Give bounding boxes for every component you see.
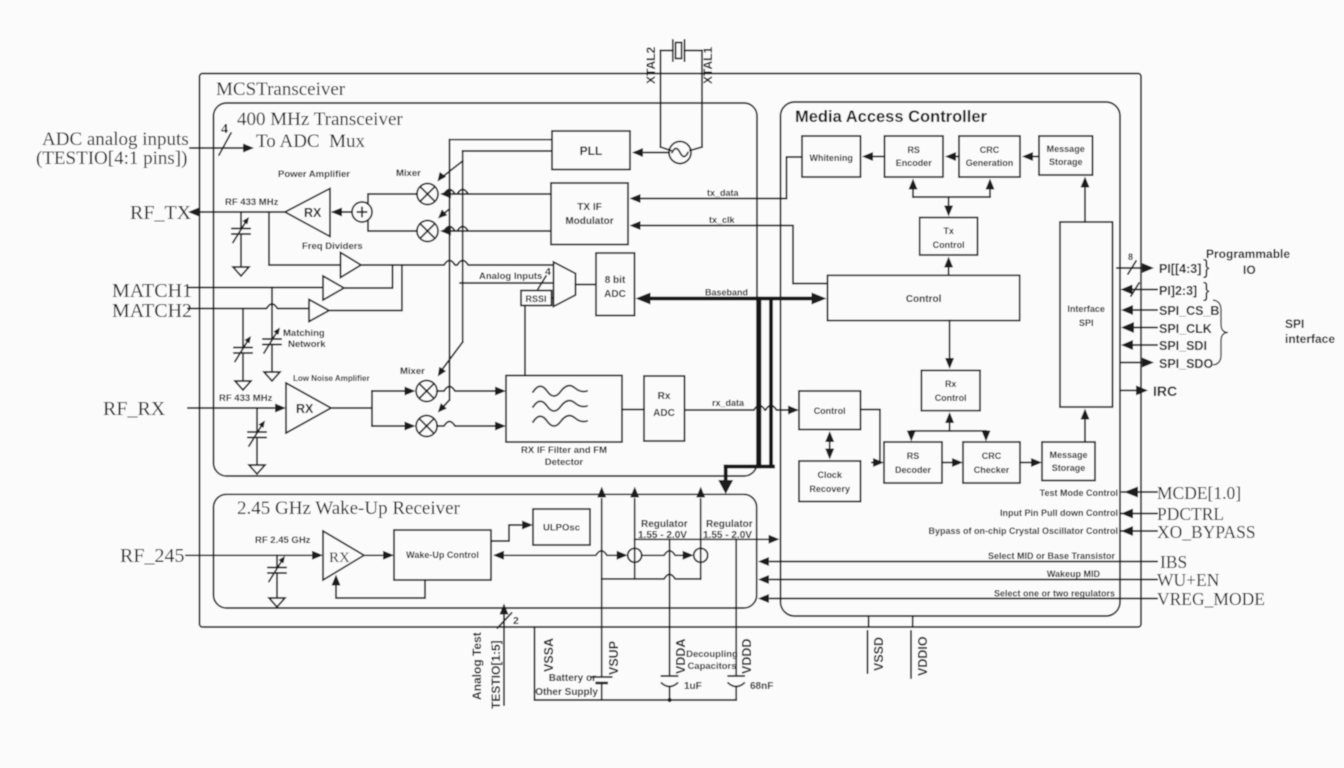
bus slash 4 on ADC input bbox=[219, 122, 231, 155]
svg-text:Regulator: Regulator bbox=[706, 519, 753, 530]
wire XO to PLL bbox=[632, 148, 669, 157]
wire LO to TX mixer upper bbox=[438, 161, 463, 182]
svg-text:4: 4 bbox=[221, 122, 228, 137]
capacitor tuning WU bbox=[268, 555, 286, 607]
svg-text:RF_245: RF_245 bbox=[120, 545, 184, 567]
svg-text:Network: Network bbox=[288, 339, 326, 350]
block PLL bbox=[552, 131, 630, 170]
wire CRC Checker to Message Storage bbox=[1020, 458, 1042, 467]
label SPI_CS_B bbox=[1159, 304, 1219, 318]
svg-text:SPI_CLK: SPI_CLK bbox=[1159, 322, 1212, 336]
svg-text:tx_clk: tx_clk bbox=[709, 215, 736, 225]
wire TX Control branch bbox=[909, 179, 995, 217]
block RS Decoder bbox=[884, 442, 942, 483]
svg-text:Wakeup MID: Wakeup MID bbox=[1047, 569, 1101, 579]
mux ADC bbox=[554, 262, 576, 307]
svg-text:8: 8 bbox=[1128, 252, 1133, 262]
svg-text:RF 433 MHz: RF 433 MHz bbox=[219, 393, 273, 404]
wire ADC analog inputs bbox=[190, 144, 254, 153]
wire RSSI to mux bbox=[552, 297, 554, 299]
label Regulator 1 bbox=[638, 519, 688, 541]
svg-text:ULPOsc: ULPOsc bbox=[543, 523, 580, 534]
label Mixer RX bbox=[400, 366, 425, 377]
wire Control to Rx Control bbox=[945, 321, 954, 369]
wire PLL out 1 bbox=[450, 139, 553, 141]
svg-text:Control: Control bbox=[933, 240, 965, 250]
svg-text:PDCTRL: PDCTRL bbox=[1157, 504, 1224, 524]
wire regulator output line bbox=[635, 535, 780, 544]
svg-text:RX IF Filter and FM: RX IF Filter and FM bbox=[521, 445, 607, 456]
bus control vertical 1 bbox=[758, 299, 762, 467]
svg-text:Analog Test: Analog Test bbox=[470, 632, 484, 700]
wire LO to RX mixer upper bbox=[438, 342, 463, 377]
crystal X1 bbox=[661, 40, 703, 61]
svg-text:1uF: 1uF bbox=[684, 681, 702, 692]
op-amp PA bbox=[285, 189, 330, 237]
svg-text:RF_TX: RF_TX bbox=[130, 202, 192, 224]
label Bypass crystal osc control bbox=[928, 526, 1118, 536]
wire TX IF to mixer upper bbox=[440, 190, 551, 199]
wire supply to wake-up control bbox=[493, 551, 628, 560]
block RSSI bbox=[521, 291, 552, 306]
wire SPI_SDO bbox=[1121, 358, 1154, 368]
label SPI_SDO bbox=[1159, 357, 1213, 371]
wire Control to RS Decoder bbox=[861, 410, 885, 468]
wire Rx Control branch bbox=[907, 412, 991, 442]
svg-text:TESTIO[1:5]: TESTIO[1:5] bbox=[489, 640, 503, 709]
label VSUP bbox=[607, 641, 621, 675]
wire RX mixer upper to filter bbox=[437, 387, 506, 396]
label IRC bbox=[1153, 383, 1177, 399]
wire PLL out 2 bbox=[463, 150, 552, 152]
svg-text:XTAL2: XTAL2 bbox=[644, 47, 658, 84]
svg-text:VSSD: VSSD bbox=[872, 637, 886, 671]
label ADC analog inputs bbox=[36, 129, 189, 169]
svg-text:MATCH1: MATCH1 bbox=[112, 280, 192, 302]
label TESTIO 1:5 bbox=[489, 640, 503, 709]
label Low Noise Amplifier bbox=[293, 374, 370, 383]
wire VDDA drop bbox=[669, 539, 671, 700]
label PI 4:3 bbox=[1159, 262, 1201, 276]
svg-text:Decoupling: Decoupling bbox=[686, 649, 738, 660]
svg-text:RF_RX: RF_RX bbox=[103, 398, 166, 420]
wire filter to Rx ADC bbox=[622, 409, 644, 411]
svg-text:Regulator: Regulator bbox=[641, 519, 688, 530]
label SPI_SDI bbox=[1159, 339, 1207, 353]
label RF_245 bbox=[120, 545, 184, 567]
label To ADC Mux bbox=[256, 131, 365, 152]
label VREG_MODE bbox=[1157, 589, 1265, 609]
label SPI interface bbox=[1285, 317, 1335, 346]
wire rx_data bbox=[685, 398, 799, 415]
block CRC Checker bbox=[963, 442, 1020, 483]
wire Control to Clock Recovery bbox=[825, 431, 834, 460]
block RS Encoder bbox=[885, 136, 944, 177]
wire LO to RX mixer lower bbox=[438, 400, 450, 413]
svg-text:Encoder: Encoder bbox=[896, 158, 933, 168]
wire SPI to Message Storage TX bbox=[1081, 177, 1090, 223]
oscillator XO bbox=[669, 142, 691, 164]
label VDDD bbox=[740, 639, 754, 674]
svg-text:PI[[4:3]: PI[[4:3] bbox=[1159, 262, 1201, 276]
block ULPOsc bbox=[533, 509, 590, 545]
wire WU_EN bbox=[758, 575, 1157, 584]
block Interface SPI bbox=[1060, 222, 1113, 407]
svg-text:IO: IO bbox=[1243, 263, 1256, 277]
svg-text:RF 433 MHz: RF 433 MHz bbox=[225, 197, 279, 208]
label RF_TX bbox=[130, 202, 192, 224]
wire RS Encoder to Whitening bbox=[862, 152, 885, 161]
svg-text:VREG_MODE: VREG_MODE bbox=[1157, 589, 1265, 609]
wire VREG_MODE bbox=[758, 594, 1157, 603]
wire PI 4:3 bbox=[1117, 263, 1154, 273]
wire divider out to mux bbox=[361, 261, 554, 266]
svg-text:Test Mode Control: Test Mode Control bbox=[1040, 488, 1118, 498]
capacitor VDDA decoupling bbox=[662, 676, 678, 687]
svg-text:IRC: IRC bbox=[1153, 383, 1177, 399]
svg-text:MATCH2: MATCH2 bbox=[112, 300, 192, 322]
wire MATCH2 bbox=[188, 304, 309, 309]
svg-text:4: 4 bbox=[545, 266, 551, 278]
wire T2 out bbox=[344, 265, 393, 288]
block RX IF Filter bbox=[506, 376, 622, 443]
svg-text:Analog Inputs: Analog Inputs bbox=[479, 271, 542, 282]
label Battery or Other Supply bbox=[535, 673, 598, 698]
svg-text:VDDA: VDDA bbox=[674, 639, 688, 674]
wire PI 2:3 bbox=[1121, 285, 1158, 295]
label Decoupling Capacitors bbox=[686, 649, 738, 672]
svg-text:MCSTransceiver: MCSTransceiver bbox=[216, 79, 346, 100]
capacitor matching 2 bbox=[263, 288, 281, 382]
bus slash PI 2:3 bbox=[1131, 283, 1139, 296]
svg-text:RS: RS bbox=[907, 145, 920, 155]
wire MATCH1 bbox=[188, 287, 323, 289]
svg-text:Rx: Rx bbox=[658, 391, 671, 402]
block CRC Generation bbox=[959, 136, 1020, 177]
svg-text:VSUP: VSUP bbox=[607, 641, 621, 675]
block 8bit ADC bbox=[596, 253, 635, 316]
outer box MCS Transceiver bbox=[200, 74, 1142, 628]
svg-text:Modulator: Modulator bbox=[565, 216, 613, 227]
svg-text:Decoder: Decoder bbox=[895, 465, 932, 475]
label VDDA bbox=[674, 639, 688, 674]
svg-text:Media Access Controller: Media Access Controller bbox=[795, 108, 988, 126]
block Whitening bbox=[802, 136, 861, 177]
svg-text:WU+EN: WU+EN bbox=[1157, 570, 1220, 590]
label Matching Network bbox=[283, 328, 326, 350]
label XTAL2 bbox=[644, 47, 658, 84]
svg-text:RX: RX bbox=[296, 402, 314, 416]
wire T3 out bbox=[329, 265, 402, 311]
svg-text:Freq Dividers: Freq Dividers bbox=[302, 241, 363, 252]
svg-text:SPI_SDO: SPI_SDO bbox=[1159, 357, 1213, 371]
label XTAL1 bbox=[701, 47, 715, 84]
svg-text:interface: interface bbox=[1285, 332, 1335, 346]
regulator 1 bbox=[628, 548, 642, 562]
svg-text:Recovery: Recovery bbox=[809, 484, 850, 494]
bus Baseband bbox=[636, 288, 827, 305]
pin VDDIO bbox=[911, 616, 930, 678]
label Analog Inputs bbox=[479, 271, 542, 282]
bus slash PI 4:3 bbox=[1128, 252, 1136, 274]
svg-text:Baseband: Baseband bbox=[705, 288, 748, 298]
buffer T3 bbox=[309, 300, 329, 322]
label VSSA bbox=[542, 638, 556, 672]
label MCDE bbox=[1157, 483, 1241, 503]
wire VSUP rail bbox=[597, 487, 606, 701]
wire Message Storage to CRC Gen bbox=[1022, 152, 1039, 161]
buffer T2 bbox=[323, 276, 344, 300]
summer node bbox=[352, 202, 372, 222]
svg-text:8 bit: 8 bit bbox=[605, 275, 626, 286]
wire RS Decoder to CRC Checker bbox=[942, 458, 963, 467]
svg-text:Mixer: Mixer bbox=[400, 366, 425, 377]
title MCS Transceiver bbox=[216, 79, 346, 100]
wire RX to wake-up control bbox=[364, 551, 394, 560]
svg-text:Input Pin Pull down Control: Input Pin Pull down Control bbox=[1000, 508, 1118, 518]
label PDCTRL bbox=[1157, 504, 1224, 524]
svg-text:Detector: Detector bbox=[545, 457, 584, 468]
svg-text:RF 2.45 GHz: RF 2.45 GHz bbox=[255, 535, 311, 546]
svg-text:2: 2 bbox=[513, 615, 519, 627]
svg-text:VDDIO: VDDIO bbox=[916, 636, 930, 676]
wire IBS bbox=[758, 557, 1157, 566]
svg-text:RX: RX bbox=[304, 206, 322, 220]
wire tx_data bbox=[630, 157, 803, 203]
wire RF_RX bbox=[188, 404, 286, 413]
label 68nF bbox=[750, 681, 773, 692]
svg-text:PI]2:3]: PI]2:3] bbox=[1159, 284, 1197, 298]
block TX IF Modulator bbox=[551, 183, 628, 245]
svg-text:Storage: Storage bbox=[1052, 463, 1086, 473]
wire LO vertical 1 bbox=[449, 140, 451, 400]
svg-text:PLL: PLL bbox=[580, 144, 603, 158]
pad box bottom bbox=[535, 627, 737, 702]
svg-text:Select MID or Base Transistor: Select MID or Base Transistor bbox=[988, 551, 1116, 561]
title 400 MHz Transceiver bbox=[237, 109, 403, 130]
label Regulator 2 bbox=[703, 519, 753, 541]
svg-text:SPI_SDI: SPI_SDI bbox=[1159, 339, 1207, 353]
svg-text:RX: RX bbox=[329, 550, 350, 566]
svg-text:Low Noise Amplifier: Low Noise Amplifier bbox=[293, 374, 370, 383]
regulator 2 bbox=[694, 548, 708, 562]
brace SPI group bbox=[1213, 300, 1228, 365]
label IBS bbox=[1160, 552, 1187, 572]
wire CRC Gen to RS Encoder bbox=[945, 152, 959, 161]
label WU_EN bbox=[1157, 570, 1220, 590]
svg-text:MCDE[1.0]: MCDE[1.0] bbox=[1157, 483, 1241, 503]
wire PDCTRL bbox=[1120, 509, 1157, 519]
box 2.45GHz Wake-Up Receiver bbox=[214, 494, 757, 608]
svg-text:2.45 GHz Wake-Up Receiver: 2.45 GHz Wake-Up Receiver bbox=[237, 498, 461, 519]
wire LNA to RX mixers bbox=[331, 387, 416, 431]
mixer RX upper bbox=[416, 381, 437, 402]
svg-text:Control: Control bbox=[814, 406, 846, 416]
capacitor VDDD decoupling bbox=[728, 676, 744, 687]
svg-text:XO_BYPASS: XO_BYPASS bbox=[1157, 522, 1256, 542]
mixer RX lower bbox=[416, 416, 437, 437]
svg-text:Interface: Interface bbox=[1067, 304, 1105, 314]
svg-text:Capacitors: Capacitors bbox=[687, 661, 736, 672]
svg-text:IBS: IBS bbox=[1160, 552, 1187, 572]
block Rx Control bbox=[921, 370, 980, 410]
label XO_BYPASS bbox=[1157, 522, 1256, 542]
wire SPI_SDI bbox=[1121, 340, 1157, 350]
svg-text:SPI_CS_B: SPI_CS_B bbox=[1159, 304, 1219, 318]
wire MCDE bbox=[1122, 487, 1157, 498]
label RX IF Filter and FM Detector bbox=[521, 445, 607, 468]
label Select MID or Base Transistor bbox=[988, 551, 1116, 561]
label PI 2:3 bbox=[1159, 284, 1197, 298]
svg-text:ADC analog inputs: ADC analog inputs bbox=[42, 129, 189, 150]
svg-text:VDDD: VDDD bbox=[740, 639, 754, 674]
box 400 MHz Transceiver bbox=[214, 103, 758, 476]
title 2.45 GHz Wake-Up Receiver bbox=[237, 498, 461, 519]
brace PI group bbox=[1203, 257, 1210, 302]
wire XO_BYPASS bbox=[1120, 526, 1157, 536]
svg-text:Control: Control bbox=[935, 393, 967, 403]
svg-text:VSSA: VSSA bbox=[542, 638, 556, 672]
svg-text:Power Amplifier: Power Amplifier bbox=[278, 169, 350, 180]
svg-text:RS: RS bbox=[907, 451, 920, 461]
wire Analog Test TESTIO bbox=[500, 604, 509, 706]
svg-text:XTAL1: XTAL1 bbox=[701, 47, 715, 84]
label RF 2.45 GHz bbox=[255, 535, 311, 546]
label RF 433 MHz RX bbox=[219, 393, 273, 404]
label Power Amplifier bbox=[278, 169, 350, 180]
block Clock Recovery bbox=[799, 461, 861, 502]
wire RF_245 bbox=[186, 551, 323, 560]
label Programmable IO bbox=[1206, 247, 1290, 277]
svg-text:(TESTIO[4:1 pins]): (TESTIO[4:1 pins]) bbox=[36, 148, 187, 169]
svg-text:Tx: Tx bbox=[943, 226, 954, 236]
bus slash 4 analog inputs bbox=[538, 266, 551, 289]
svg-text:Message: Message bbox=[1049, 450, 1087, 460]
svg-text:Programmable: Programmable bbox=[1206, 247, 1290, 261]
svg-text:Storage: Storage bbox=[1049, 157, 1083, 167]
op-amp LNA bbox=[286, 383, 331, 433]
wire TX mixer lower to summer bbox=[368, 221, 417, 231]
block TX Control bbox=[920, 218, 978, 256]
label Analog Test bbox=[470, 632, 484, 700]
svg-text:Select one or two regulators: Select one or two regulators bbox=[994, 589, 1115, 599]
label Input Pin Pull down Control bbox=[1000, 508, 1118, 518]
wire SPI_CLK bbox=[1121, 322, 1157, 333]
svg-text:To ADC Mux: To ADC Mux bbox=[256, 131, 365, 152]
wire IRC bbox=[1120, 385, 1148, 395]
label MATCH1 bbox=[112, 280, 192, 302]
wire TX mixer upper to summer bbox=[368, 194, 417, 203]
wire XTAL1 pin bbox=[690, 51, 702, 151]
op-amp wake-up RX bbox=[323, 531, 364, 580]
label Freq Dividers bbox=[302, 241, 363, 252]
svg-text:Rx: Rx bbox=[945, 379, 957, 389]
svg-text:400 MHz Transceiver: 400 MHz Transceiver bbox=[237, 109, 403, 130]
wire LO vertical 2 bbox=[462, 151, 464, 342]
wire PA tap to divider T1 bbox=[269, 212, 341, 265]
svg-text:}: } bbox=[1203, 280, 1210, 302]
buffer T1 bbox=[341, 253, 362, 278]
svg-text:tx_data: tx_data bbox=[707, 188, 740, 198]
bus slash 2 TESTIO bbox=[498, 613, 520, 628]
wire AGC feedback bbox=[332, 575, 426, 599]
label Wakeup MID bbox=[1047, 569, 1101, 579]
wire regulator1 to regulator2 bbox=[642, 551, 694, 560]
wire regulator1 output up bbox=[630, 487, 639, 579]
svg-text:68nF: 68nF bbox=[750, 681, 773, 692]
svg-text:Other Supply: Other Supply bbox=[535, 687, 598, 698]
svg-text:Checker: Checker bbox=[974, 465, 1010, 475]
label Test Mode Control bbox=[1040, 488, 1118, 498]
label MATCH2 bbox=[112, 300, 192, 322]
svg-text:RSSI: RSSI bbox=[525, 294, 546, 304]
label RF 433 MHz TX bbox=[225, 197, 279, 208]
svg-text:Control: Control bbox=[906, 294, 942, 305]
wire VDDD drop bbox=[735, 539, 737, 700]
svg-text:Matching: Matching bbox=[283, 328, 325, 339]
wire wake-up control to ULPOsc bbox=[491, 521, 533, 542]
wire Control to TX Control bbox=[944, 257, 953, 276]
svg-text:rx_data: rx_data bbox=[712, 398, 745, 408]
block Rx ADC bbox=[644, 376, 685, 441]
svg-text:CRC: CRC bbox=[982, 451, 1002, 461]
svg-text:Clock: Clock bbox=[817, 470, 843, 480]
battery VSUP bbox=[592, 677, 612, 683]
wire RSSI from filter bbox=[524, 306, 526, 376]
pin VSSD bbox=[868, 616, 887, 673]
block Control RX small bbox=[799, 391, 861, 430]
svg-text:CRC: CRC bbox=[980, 145, 1000, 155]
label SPI_CLK bbox=[1159, 322, 1212, 336]
svg-text:TX IF: TX IF bbox=[577, 202, 601, 213]
block Wake-Up Control bbox=[394, 530, 491, 580]
title Media Access Controller bbox=[795, 108, 988, 126]
mixer TX lower bbox=[417, 221, 438, 242]
wire RF_TX bbox=[188, 208, 285, 217]
svg-text:Whitening: Whitening bbox=[809, 153, 853, 163]
svg-text:Wake-Up Control: Wake-Up Control bbox=[406, 550, 479, 560]
box Media Access Controller bbox=[781, 102, 1121, 616]
svg-text:ADC: ADC bbox=[653, 408, 675, 419]
wire RX mixer lower to filter bbox=[437, 422, 506, 431]
wire TX IF to mixer lower bbox=[440, 227, 551, 236]
wire bottom supply rail bbox=[602, 574, 701, 579]
label Select one or two regulators bbox=[994, 589, 1115, 599]
svg-text:SPI: SPI bbox=[1079, 318, 1094, 328]
svg-text:Bypass of on-chip Crystal Osci: Bypass of on-chip Crystal Oscillator Con… bbox=[928, 526, 1118, 536]
block Message Storage RX bbox=[1042, 442, 1095, 481]
label 1uF bbox=[684, 681, 702, 692]
wire LO to TX mixer lower bbox=[438, 209, 450, 219]
capacitor tuning TX bbox=[232, 212, 250, 276]
label Mixer TX bbox=[396, 168, 421, 179]
wire regulator2 output up bbox=[696, 487, 705, 579]
wire XTAL2 pin bbox=[661, 51, 672, 151]
svg-text:ADC: ADC bbox=[604, 289, 626, 300]
wire summer to PA bbox=[331, 208, 352, 217]
wire Message Storage to SPI bbox=[1081, 409, 1090, 443]
wire mux to ADC bbox=[576, 284, 597, 286]
svg-text:Generation: Generation bbox=[966, 158, 1014, 168]
label RF_RX bbox=[103, 398, 166, 420]
svg-text:SPI: SPI bbox=[1285, 317, 1304, 331]
block Message Storage TX bbox=[1039, 136, 1093, 175]
mixer TX upper bbox=[417, 184, 438, 205]
capacitor tuning RX bbox=[248, 408, 266, 474]
block Control MAC bbox=[828, 275, 1020, 320]
bus control elbow bbox=[718, 467, 773, 495]
wire tx_clk bbox=[630, 215, 828, 284]
